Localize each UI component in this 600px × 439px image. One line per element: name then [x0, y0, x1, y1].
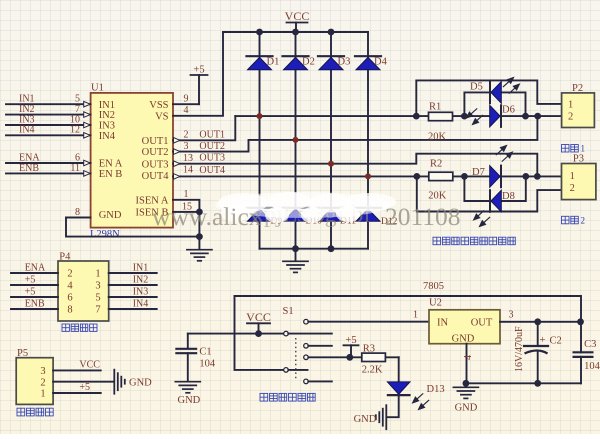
svg-text:9: 9	[184, 94, 189, 105]
svg-text:VCC: VCC	[246, 310, 271, 324]
svg-text:13: 13	[183, 153, 193, 164]
svg-text:3: 3	[95, 281, 100, 292]
svg-text:IN2: IN2	[99, 110, 115, 121]
svg-text:16V/470uF: 16V/470uF	[514, 326, 525, 372]
svg-text:D13: D13	[427, 384, 445, 395]
svg-text:1: 1	[413, 310, 418, 321]
svg-text:IN4: IN4	[99, 131, 116, 142]
svg-text:2: 2	[67, 269, 72, 280]
svg-text:OUT1: OUT1	[142, 136, 169, 147]
svg-text:8: 8	[75, 207, 80, 218]
svg-text:R3: R3	[363, 343, 375, 354]
svg-text:14: 14	[183, 165, 193, 176]
svg-text:IN1: IN1	[99, 100, 115, 111]
svg-text:D1: D1	[267, 57, 280, 68]
svg-text:20K: 20K	[428, 190, 447, 201]
svg-text:OUT4: OUT4	[142, 171, 170, 182]
svg-text:7805: 7805	[423, 281, 444, 292]
svg-text:OUT2: OUT2	[199, 141, 225, 152]
svg-text:C2: C2	[550, 336, 562, 347]
svg-text:OUT4: OUT4	[199, 165, 225, 176]
svg-text:2: 2	[40, 377, 45, 388]
svg-text:VCC: VCC	[285, 9, 310, 23]
svg-text:6: 6	[67, 293, 72, 304]
svg-text:VS: VS	[155, 111, 169, 122]
svg-text:ENA: ENA	[25, 263, 46, 274]
svg-text:www.alicx: www.alicx	[152, 202, 262, 231]
svg-text:EN B: EN B	[99, 169, 123, 180]
svg-text:2: 2	[184, 130, 189, 141]
svg-text:12: 12	[70, 125, 80, 136]
svg-text:6: 6	[75, 152, 80, 163]
svg-text:2.2K: 2.2K	[362, 365, 383, 376]
svg-text:IN1: IN1	[19, 94, 35, 105]
svg-text:P3: P3	[573, 153, 584, 164]
svg-text:+5: +5	[25, 287, 36, 298]
svg-text:20K: 20K	[428, 132, 447, 143]
svg-text:+5: +5	[25, 275, 36, 286]
svg-text:5: 5	[95, 293, 100, 304]
svg-text:2: 2	[568, 112, 573, 123]
svg-text:ENA: ENA	[19, 152, 40, 163]
svg-text:GND: GND	[354, 414, 377, 425]
svg-text:2: 2	[581, 215, 586, 225]
svg-text:D4: D4	[374, 57, 388, 68]
svg-text:U2: U2	[429, 298, 442, 309]
svg-text:L298N: L298N	[90, 229, 120, 240]
svg-text:+: +	[540, 335, 546, 346]
svg-text:1: 1	[581, 144, 586, 154]
svg-text:4: 4	[463, 355, 474, 360]
svg-text:GND: GND	[455, 403, 478, 414]
svg-text:IN2: IN2	[19, 104, 35, 115]
svg-text:11: 11	[70, 163, 80, 174]
svg-text:3: 3	[40, 366, 45, 377]
svg-text:P5: P5	[17, 348, 28, 359]
svg-text:U1: U1	[91, 83, 104, 94]
svg-text:IN1: IN1	[133, 263, 149, 274]
svg-text:1: 1	[40, 389, 45, 400]
svg-text:C1: C1	[199, 347, 211, 358]
svg-text:104: 104	[199, 359, 216, 370]
svg-text:OUT1: OUT1	[199, 130, 225, 141]
svg-text:GND: GND	[129, 378, 152, 389]
svg-text:EN A: EN A	[99, 159, 123, 170]
svg-text:OUT: OUT	[471, 318, 493, 329]
svg-text:+5: +5	[79, 382, 90, 393]
svg-text:D3: D3	[338, 57, 351, 68]
svg-text:D5: D5	[470, 82, 483, 93]
svg-text:3: 3	[184, 141, 189, 152]
svg-text:D2: D2	[302, 57, 315, 68]
svg-text:201108: 201108	[385, 202, 461, 231]
svg-text:2: 2	[570, 183, 575, 194]
svg-text:D7: D7	[472, 167, 485, 178]
svg-text:D8: D8	[502, 191, 515, 202]
svg-text:OUT3: OUT3	[142, 159, 169, 170]
svg-text:1: 1	[184, 189, 189, 200]
svg-text:ENB: ENB	[19, 163, 39, 174]
svg-text:OUT3: OUT3	[199, 152, 225, 163]
svg-text:5: 5	[75, 94, 80, 105]
svg-text:ENB: ENB	[25, 299, 45, 310]
svg-text:1: 1	[568, 99, 573, 110]
svg-text:IN: IN	[437, 318, 448, 329]
svg-text:4: 4	[184, 105, 189, 116]
svg-text:D6: D6	[502, 105, 515, 116]
svg-text:+5: +5	[345, 335, 356, 346]
svg-text:GND: GND	[99, 210, 122, 221]
svg-text:IN2: IN2	[133, 275, 149, 286]
svg-text:IN4: IN4	[19, 125, 35, 136]
svg-text:S1: S1	[283, 306, 294, 317]
svg-text:1: 1	[95, 269, 100, 280]
svg-text:P2: P2	[572, 83, 583, 94]
svg-text:+5: +5	[193, 65, 204, 76]
svg-text:8: 8	[67, 305, 72, 316]
svg-text:7: 7	[75, 104, 80, 115]
svg-text:GND: GND	[178, 395, 201, 406]
svg-text:104: 104	[584, 361, 600, 372]
svg-text:1: 1	[570, 171, 575, 182]
svg-text:R2: R2	[430, 159, 442, 170]
svg-text:IN4: IN4	[133, 299, 149, 310]
svg-text:OUT2: OUT2	[142, 147, 169, 158]
svg-text:C3: C3	[584, 339, 596, 350]
svg-text:4: 4	[67, 281, 73, 292]
svg-text:IN3: IN3	[133, 287, 149, 298]
svg-text:VSS: VSS	[149, 100, 168, 111]
svg-text:P4: P4	[59, 252, 71, 263]
svg-text:GND: GND	[452, 334, 475, 345]
svg-text:3: 3	[509, 310, 514, 321]
svg-text:VCC: VCC	[79, 360, 100, 371]
svg-text:R1: R1	[429, 102, 441, 113]
svg-text:7: 7	[95, 305, 100, 316]
